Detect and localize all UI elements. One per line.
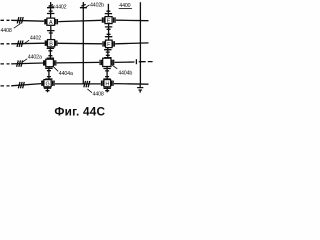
wire: row 4 middle segment — [55, 83, 101, 85]
capacitor below empty box R — [103, 69, 110, 71]
wire: row 2 middle segment — [58, 42, 102, 45]
wire: column-2 bus E-F segment — [108, 24, 110, 40]
box H — [104, 80, 111, 87]
capacitor left of H — [102, 81, 104, 86]
wire: row 3 right segment — [115, 61, 135, 63]
empty box right — [103, 58, 111, 66]
wire: column-2 bus top segment — [107, 4, 109, 17]
svg-text:4400: 4400 — [119, 3, 130, 9]
capacitor left of F — [103, 41, 105, 46]
svg-text:4408: 4408 — [93, 91, 104, 97]
label 4402b (top of mid bus) — [86, 5, 90, 7]
wire: row 2 left lead dashes — [1, 43, 10, 45]
wire: row 2 right segment — [115, 42, 148, 45]
capacitor above H — [103, 77, 110, 79]
break tick on row 3 right — [135, 59, 137, 64]
wire: right vertical bus — [139, 2, 141, 84]
svg-text:A: A — [49, 20, 53, 26]
wire: row 1 left segment — [11, 19, 44, 22]
capacitor right of empty box R — [112, 60, 114, 65]
box E — [105, 17, 112, 24]
capacitor below empty box L — [45, 68, 52, 70]
capacitor below E — [105, 27, 112, 29]
capacitor above empty box L — [47, 56, 54, 58]
antenna break ticks row 4 mid — [84, 81, 90, 87]
empty box left — [46, 59, 54, 66]
svg-text:4402a: 4402a — [28, 54, 42, 60]
wire: column-2 bus tail below H — [106, 87, 108, 93]
capacitor 4402b on mid bus — [80, 4, 87, 7]
antenna break ticks row 3 — [17, 60, 23, 66]
capacitor 4402 at top of column 1 — [47, 5, 54, 8]
svg-text:4402: 4402 — [30, 35, 41, 41]
wire: row 1 left lead dashes — [1, 19, 10, 21]
box F — [106, 40, 113, 48]
capacitor between A and B — [47, 31, 54, 33]
wire: row 3 right dashes — [139, 61, 153, 63]
antenna break ticks row 1 — [17, 17, 23, 23]
capacitor left of B — [45, 41, 46, 46]
capacitor left of empty box L — [44, 60, 45, 65]
wire: column-1 bus top segment — [50, 2, 52, 18]
box B — [48, 40, 55, 47]
capacitor right of E — [114, 17, 116, 22]
capacitor below G — [44, 88, 51, 90]
capacitor below F — [104, 50, 111, 52]
wire: row 1 right segment — [116, 19, 149, 22]
antenna break ticks row 2 — [17, 41, 23, 47]
wire: row 2 left segment — [11, 42, 45, 45]
svg-text:4402b: 4402b — [90, 3, 104, 9]
capacitor right of F — [113, 41, 115, 46]
capacitor below B — [47, 48, 54, 50]
svg-text:H: H — [105, 81, 109, 87]
capacitor left of E — [102, 17, 104, 22]
wire: row 1 middle segment — [58, 20, 101, 21]
capacitor right of B — [55, 41, 57, 46]
wire: mid vertical bus — [82, 2, 84, 84]
wire: row 4 left segment — [11, 84, 41, 86]
capacitor left of A — [45, 19, 46, 24]
label 4402 (top of column 1) — [51, 6, 54, 7]
svg-text:Фиг. 44С: Фиг. 44С — [54, 105, 105, 119]
wire: column-2 bus empty-H segment — [106, 67, 108, 80]
wire: column-1 bus B-empty segment — [49, 47, 51, 59]
wire: column-1 bus empty-G segment — [48, 67, 50, 80]
capacitor right of H — [112, 81, 114, 86]
wire: row 4 left lead dashes — [1, 85, 10, 87]
svg-text:4404a: 4404a — [59, 71, 73, 77]
box A — [47, 18, 55, 25]
capacitor left of empty box R — [100, 60, 102, 65]
svg-text:G: G — [45, 81, 49, 87]
wire: row 3 left segment — [11, 62, 43, 65]
capacitor right of G — [53, 81, 55, 86]
wire: column-1 bus tail below G — [47, 87, 49, 93]
svg-text:E: E — [107, 18, 111, 24]
capacitor above F — [105, 34, 112, 36]
wire: row 4 right segment — [114, 83, 149, 86]
svg-text:B: B — [49, 42, 53, 48]
capacitor above E — [105, 11, 112, 13]
capacitor right of empty box L — [54, 60, 56, 65]
wire: row 3 middle segment — [57, 61, 100, 64]
capacitor right of A — [56, 19, 58, 24]
capacitor above G — [45, 77, 52, 79]
antenna break ticks row 4 — [18, 82, 24, 88]
wire: row 3 left lead dashes — [1, 63, 10, 65]
capacitor at bottom of right bus — [137, 84, 143, 92]
wire: column-2 bus F-empty segment — [107, 48, 109, 59]
svg-text:4408: 4408 — [1, 28, 12, 34]
svg-text:4402: 4402 — [55, 5, 66, 11]
capacitor left of G — [42, 81, 43, 86]
capacitor above empty box R — [104, 55, 111, 57]
svg-text:4404b: 4404b — [118, 70, 132, 76]
box G — [44, 80, 51, 87]
capacitor (second) above box A — [47, 11, 54, 13]
wire: column-1 bus A-B segment — [50, 25, 52, 39]
capacitor below H — [104, 88, 111, 90]
